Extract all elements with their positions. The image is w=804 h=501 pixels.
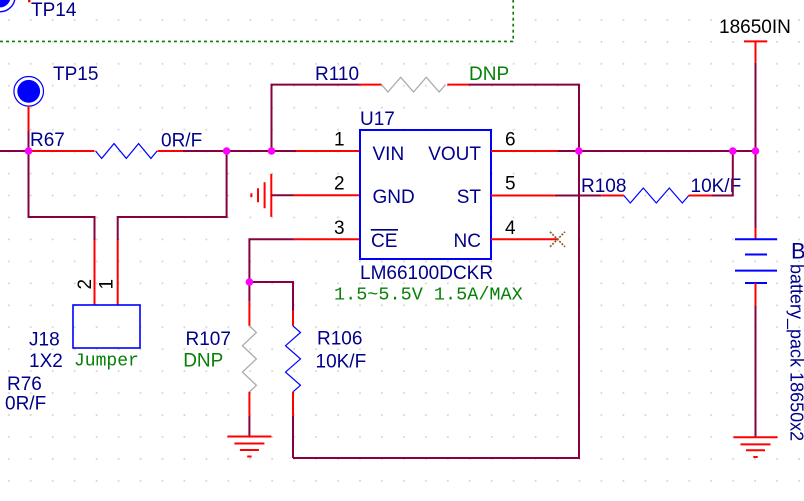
- svg-text:0R/F: 0R/F: [5, 394, 46, 415]
- wire CE link: [249, 239, 294, 282]
- wire R110 right stub: [447, 84, 469, 86]
- svg-text:DNP: DNP: [183, 351, 223, 372]
- wire rail to battery: [755, 151, 757, 228]
- svg-text:2: 2: [334, 174, 345, 195]
- junction (R67 right): [223, 147, 231, 155]
- wire CE pin stub: [294, 238, 360, 240]
- wire CE node to R107: [248, 282, 250, 302]
- junction (VOUT riser): [575, 147, 583, 155]
- svg-text:DNP: DNP: [469, 64, 509, 85]
- resistor R106: [286, 326, 367, 392]
- wire VIN rail to R67: [29, 150, 95, 152]
- svg-text:NC: NC: [454, 231, 481, 252]
- ground (GND pin, pointing left): [251, 174, 271, 217]
- svg-text:R67: R67: [30, 130, 65, 151]
- wire battery top stub: [755, 228, 757, 239]
- svg-text:VIN: VIN: [373, 144, 405, 165]
- resistor R107 (DNP, gray): [183, 326, 256, 392]
- test point TP15: [14, 64, 99, 106]
- svg-text:B: B: [791, 239, 804, 264]
- wire R106 bottom stub: [292, 392, 294, 416]
- svg-text:ST: ST: [457, 187, 482, 208]
- svg-text:6: 6: [505, 129, 516, 150]
- wire R108 right stub: [689, 195, 712, 197]
- svg-text:4: 4: [505, 218, 516, 239]
- svg-text:1: 1: [96, 279, 117, 290]
- svg-text:1.5~5.5V 1.5A/MAX: 1.5~5.5V 1.5A/MAX: [334, 285, 523, 306]
- svg-text:3: 3: [334, 218, 345, 239]
- wire VIN rail left edge: [0, 150, 29, 152]
- wire VIN rail R67 right stub: [158, 150, 184, 152]
- svg-text:TP15: TP15: [53, 64, 98, 85]
- svg-text:VOUT: VOUT: [428, 144, 481, 165]
- wire NC pin stub: [491, 238, 558, 240]
- wire jumper leg from TP15 node: [29, 151, 95, 240]
- junction (R110 riser): [268, 147, 276, 155]
- wire VOUT riser down (to R106 bottom): [293, 151, 579, 458]
- wire R107 top stub: [248, 302, 250, 326]
- svg-text:R106: R106: [317, 329, 362, 350]
- wire GND link: [271, 194, 293, 196]
- wire VOUT rail to battery: [557, 150, 755, 152]
- resistor R76 labels: [5, 374, 46, 415]
- junction (R108 riser): [729, 147, 737, 155]
- svg-text:R108: R108: [581, 176, 626, 197]
- svg-text:10K/F: 10K/F: [316, 352, 367, 373]
- junction (battery rail): [752, 147, 760, 155]
- junction (TP15 / rail): [25, 147, 33, 155]
- wire battery bottom stub: [755, 283, 757, 306]
- wire battery to ground: [755, 306, 757, 437]
- svg-text:Jumper: Jumper: [74, 352, 139, 372]
- wire power port to rail: [755, 63, 757, 151]
- svg-text:1: 1: [334, 129, 345, 150]
- svg-text:battery_pack 18650x2: battery_pack 18650x2: [786, 264, 804, 441]
- wire jumper pin2 stub: [94, 240, 96, 305]
- wire R110 left stub: [359, 84, 382, 86]
- wire R110 left riser: [272, 85, 360, 151]
- svg-text:1X2: 1X2: [29, 351, 63, 372]
- wire GND pin stub: [294, 194, 361, 196]
- wire R108 left stub: [601, 195, 624, 197]
- wire R107 bottom stub: [248, 392, 250, 416]
- svg-text:U17: U17: [360, 109, 395, 130]
- wire R106 bottom link: [292, 416, 294, 458]
- wire ST pin stub: [491, 195, 555, 197]
- wire VIN rail mid: [183, 150, 296, 152]
- resistor R108: [581, 176, 741, 203]
- svg-text:R107: R107: [186, 329, 231, 350]
- IC U17 LM66100DCKR: [334, 109, 523, 306]
- svg-text:R110: R110: [315, 64, 359, 85]
- resistor R67: [30, 130, 202, 158]
- battery B? (battery_pack 18650x2): [735, 239, 804, 442]
- wire R110 to VOUT riser: [469, 85, 579, 151]
- svg-text:R76: R76: [7, 374, 42, 395]
- svg-text:CE: CE: [371, 231, 397, 252]
- no-connect cross (pin 4): [550, 232, 565, 247]
- junction (CE / R107 / R106): [246, 278, 254, 286]
- svg-text:J18: J18: [29, 329, 60, 350]
- wire R108 riser to rail: [712, 151, 733, 196]
- test point TP14: [0, 0, 77, 21]
- svg-text:5: 5: [505, 174, 516, 195]
- wire CE node to R106 top: [249, 282, 293, 311]
- wire jumper leg from R67 node: [118, 151, 227, 240]
- svg-text:LM66100DCKR: LM66100DCKR: [360, 263, 493, 284]
- region boundary (green dashed): [0, 0, 513, 41]
- wire ST to R108: [555, 195, 601, 197]
- resistor R110 (DNP, gray): [315, 64, 509, 92]
- svg-text:GND: GND: [373, 187, 415, 208]
- ground (battery): [734, 437, 778, 457]
- power port 18650IN: [719, 17, 791, 63]
- wire VOUT pin stub: [491, 150, 557, 152]
- ground (under R107): [227, 437, 271, 457]
- wire jumper pin1 stub: [117, 240, 119, 305]
- svg-text:TP14: TP14: [31, 0, 77, 21]
- svg-text:2: 2: [75, 279, 96, 290]
- wire U17 pin1 stub: [296, 150, 360, 152]
- svg-text:18650IN: 18650IN: [719, 17, 791, 38]
- wire TP15 stem lower: [28, 131, 30, 151]
- wire R107 to ground: [248, 416, 250, 437]
- wire R106 top stub: [292, 311, 294, 326]
- wire TP15 stem: [28, 106, 30, 131]
- connector J18 jumper: [29, 305, 140, 372]
- svg-text:0R/F: 0R/F: [161, 131, 202, 152]
